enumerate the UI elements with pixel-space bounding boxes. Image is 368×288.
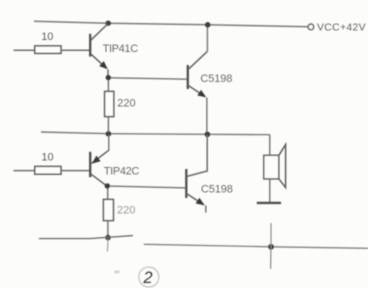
svg-text:C5198: C5198	[200, 73, 232, 85]
transistor Q3 TIP42C (PNP)	[90, 135, 109, 186]
terminal VCC open circle	[308, 24, 314, 30]
transistor Q2 C5198 (NPN upper)	[188, 27, 208, 132]
svg-text:2: 2	[142, 269, 152, 287]
wire: speaker to ground	[269, 179, 271, 202]
svg-text:10: 10	[41, 152, 53, 164]
label TIP42C	[104, 165, 140, 177]
wire: upper resistor to TIP41C base	[61, 49, 89, 51]
ground	[257, 202, 281, 204]
node: bottom-left junction	[105, 235, 111, 241]
label C5198 (lower)	[201, 183, 233, 195]
svg-text:TIP41C: TIP41C	[103, 43, 139, 55]
speaker LS	[264, 144, 286, 187]
wire: lower input lead	[14, 170, 36, 172]
value label 10 (upper)	[41, 31, 53, 43]
wire: collector node down to resistor 220 (lower)	[107, 189, 109, 200]
wire: bottom-left horizontal segment	[39, 236, 133, 239]
resistor 220 (lower)	[103, 199, 113, 220]
svg-text:220: 220	[117, 204, 135, 216]
wire: lower resistor to TIP42C base	[61, 170, 89, 172]
wire: top supply rail	[34, 21, 308, 27]
stray green mark	[114, 270, 119, 273]
value label 220 (lower)	[117, 204, 135, 216]
wire: middle rail corner down to speaker	[269, 135, 271, 156]
svg-text:VCC+42V: VCC+42V	[317, 22, 366, 33]
label VCC+42V	[317, 22, 366, 33]
wire: resistor 220 (upper) to middle rail	[107, 117, 109, 133]
wire: bottom rail	[144, 244, 368, 248]
node: junction top rail / TIP41C collector	[106, 21, 111, 26]
wire: TIP42C collector to lower C5198 base	[110, 186, 187, 188]
transistor Q4 C5198 (NPN lower)	[186, 135, 207, 213]
node: middle rail left junction	[106, 131, 112, 137]
wire: TIP41C emitter to C5198 base	[111, 78, 187, 79]
wire: middle rail	[41, 132, 270, 135]
node: middle rail right junction	[205, 132, 211, 138]
node: TIP42C collector junction	[105, 183, 110, 188]
svg-text:C5198: C5198	[201, 183, 233, 195]
resistor 220 (upper)	[105, 91, 114, 116]
wire: resistor 220 (lower) down to bottom-left node	[107, 221, 109, 238]
wire: emitter node down to resistor 220 (upper)	[107, 80, 109, 91]
value label 10 (lower)	[41, 152, 53, 164]
value label 220 (upper)	[117, 97, 135, 109]
resistor 10 (upper)	[35, 46, 61, 54]
resistor 10 (lower)	[35, 166, 61, 174]
label TIP41C	[103, 43, 139, 55]
label C5198 (upper)	[200, 73, 232, 85]
node: junction top rail / C5198 collector	[205, 22, 211, 28]
node: TIP41C emitter junction	[106, 75, 111, 80]
node: bottom rail junction	[268, 244, 274, 250]
wire: vertical through bottom rail junction	[270, 223, 272, 269]
wire: upper input lead	[14, 49, 36, 51]
wire: fading stub below bottom-left node	[106, 239, 109, 252]
svg-text:10: 10	[41, 31, 53, 43]
svg-text:220: 220	[117, 97, 135, 109]
transistor Q1 TIP41C (NPN)	[90, 24, 108, 75]
svg-text:TIP42C: TIP42C	[104, 165, 140, 177]
figure number circled 2	[139, 267, 159, 287]
